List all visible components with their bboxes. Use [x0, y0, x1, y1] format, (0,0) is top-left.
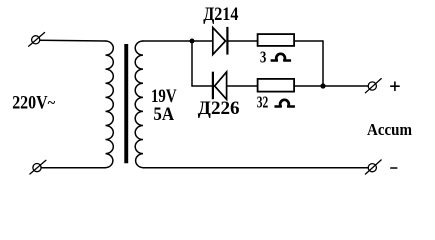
svg-text:Accum: Accum — [367, 120, 412, 139]
svg-text:3: 3 — [260, 48, 267, 67]
svg-text:~: ~ — [48, 96, 56, 112]
svg-text:Д214: Д214 — [203, 4, 239, 25]
svg-text:Д226: Д226 — [198, 98, 240, 119]
svg-text:5A: 5A — [153, 104, 174, 125]
svg-text:32: 32 — [257, 93, 269, 112]
svg-text:220V: 220V — [12, 94, 48, 114]
